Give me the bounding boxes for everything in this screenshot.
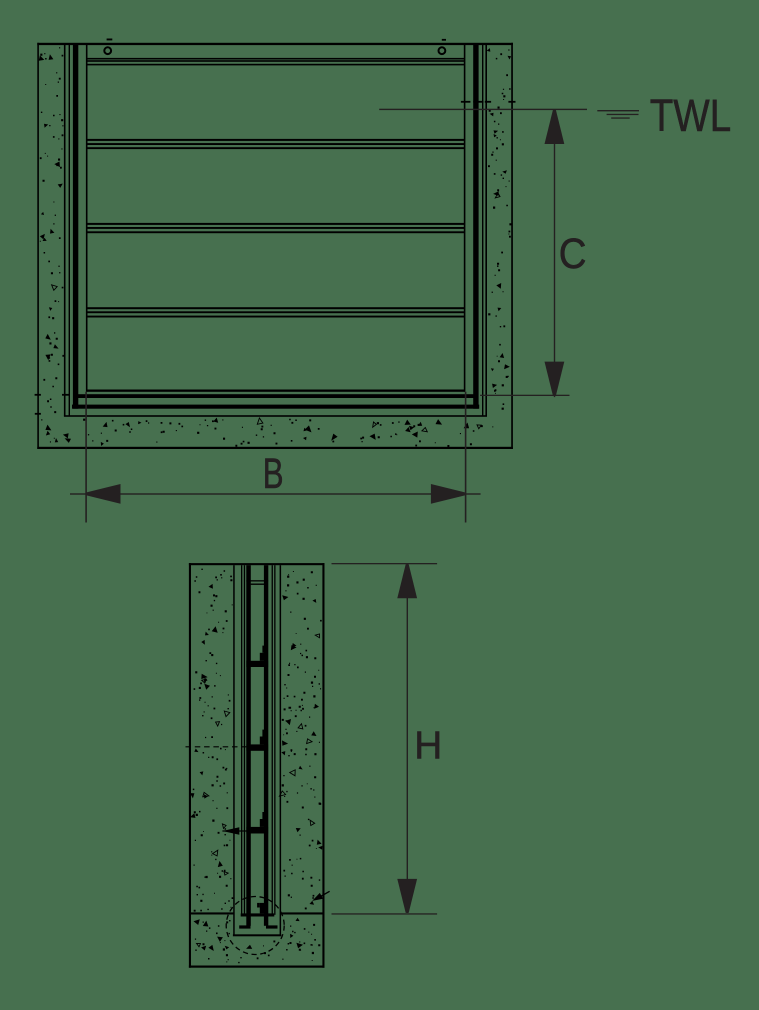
dimension B right extension line	[465, 392, 467, 523]
side: stiffener section 1	[246, 661, 268, 667]
side: gate rear plate (thick)	[264, 565, 268, 926]
svg-text:H: H	[414, 725, 442, 768]
side: concrete texture floor	[194, 918, 321, 964]
front: sill level ticks on left-side members	[35, 394, 41, 396]
dimension B line	[70, 493, 481, 494]
front: sill bar lower (thick)	[72, 405, 479, 409]
front: gate panel right edge	[464, 45, 466, 392]
front view: penstock gate elevation	[35, 39, 516, 450]
front: stiffener band 3	[86, 307, 465, 309]
front: concrete texture bottom strip	[41, 418, 493, 447]
front: concrete right inner edge	[485, 45, 487, 416]
side: concrete texture left wall	[190, 569, 233, 912]
front: concrete texture left wall	[39, 47, 65, 413]
side: leader line to stiffener 2 (dashed)	[186, 746, 247, 748]
side: wall bottom edge	[189, 966, 325, 968]
front: right lifting hole	[439, 47, 446, 54]
front: concrete floor top line	[64, 415, 487, 417]
dimension B left extension line	[85, 392, 87, 523]
label C	[559, 229, 587, 277]
front: concrete bottom edge	[37, 447, 513, 449]
side: leader arrow at stiffener 3	[222, 830, 246, 831]
side: gate bottom left foot	[239, 925, 250, 928]
side: stiffener section 2	[246, 744, 268, 750]
front: left lifting hole	[104, 47, 111, 54]
front: gate top edge band (3 lines)	[86, 58, 465, 60]
svg-text:TWL: TWL	[650, 90, 732, 141]
svg-text:B: B	[263, 449, 284, 497]
dimension B left arrow	[87, 484, 121, 504]
front: gate panel left edge	[86, 45, 88, 392]
side: wall top edge	[189, 563, 325, 565]
front: right guide channel (thick)	[473, 45, 478, 409]
dimension H bottom extension line	[332, 913, 438, 914]
side: slot pocket bottom	[233, 934, 281, 936]
side: leader to detail circle	[317, 891, 330, 898]
front: gate bottom edge	[86, 390, 465, 392]
front: sill bar upper (thick)	[77, 394, 475, 398]
dimension C bottom extension line	[480, 395, 569, 396]
label B	[263, 449, 284, 497]
front: stiffener band 2	[86, 223, 465, 225]
front: concrete texture right wall	[487, 48, 512, 410]
water surface symbol	[597, 110, 639, 111]
front: right frame plate line	[482, 45, 483, 416]
dimension H top extension line	[332, 563, 438, 564]
dimension C line	[554, 110, 555, 398]
side: concrete texture right wall	[281, 571, 322, 909]
front: centre tick above left hole	[107, 39, 113, 41]
front: TWL level ticks on right-side members	[461, 101, 471, 103]
side: gate bottom right foot	[266, 925, 278, 928]
side: gate bottom cross bar	[241, 913, 275, 916]
side: detail circle (dashed) around gate bottom	[226, 897, 284, 955]
front: concrete left outer edge	[37, 43, 39, 449]
dimension H bottom arrow	[397, 879, 417, 913]
side: bottom stiffener block	[260, 903, 267, 914]
dimension C top arrow	[545, 110, 565, 144]
svg-text:C: C	[559, 229, 587, 277]
front: left frame plate line	[69, 45, 70, 416]
side: floor line left of slot	[191, 912, 234, 914]
side: slot left edge line	[233, 565, 235, 935]
side: floor line right of slot	[281, 912, 324, 914]
front: concrete left inner edge	[64, 45, 66, 416]
front: left guide channel (thick)	[73, 45, 78, 409]
front: stiffener band 1	[86, 139, 465, 141]
dimension H top arrow	[397, 564, 417, 598]
side: wall right edge	[322, 563, 324, 968]
front: centre tick above right hole	[442, 39, 446, 41]
side: wall left edge	[189, 563, 191, 968]
front: top frame edge line	[37, 43, 513, 45]
front: concrete right outer edge	[511, 43, 513, 449]
dimension B right arrow	[431, 484, 465, 504]
side: gate top edge lines	[246, 580, 268, 581]
side: right frame thin pair	[272, 565, 273, 915]
side section view	[186, 563, 330, 968]
side: slot right edge line	[280, 565, 282, 935]
TWL water level line	[379, 109, 587, 110]
side: gate plate (thick)	[246, 565, 251, 926]
dimension C bottom arrow	[545, 362, 565, 396]
side: stiffener section 3	[246, 827, 268, 834]
side: left frame thin pair	[241, 565, 242, 915]
dimension H line	[407, 564, 408, 913]
